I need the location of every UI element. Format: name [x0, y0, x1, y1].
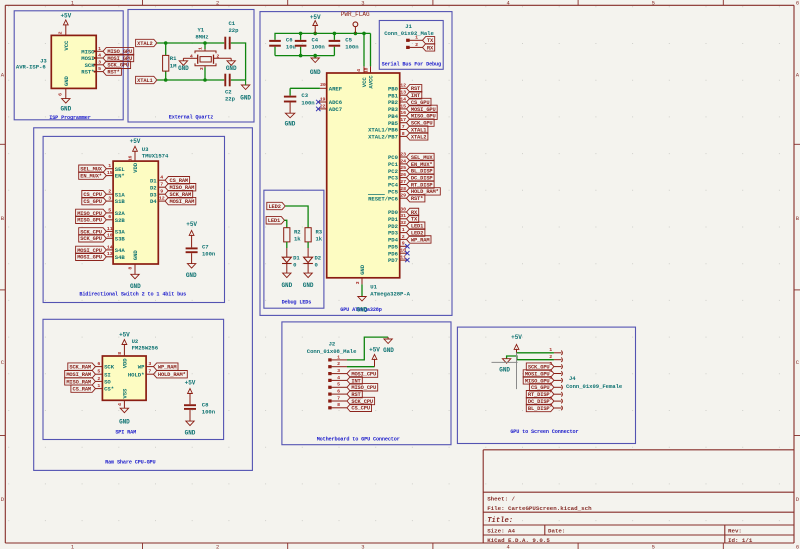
svg-text:S4B: S4B — [115, 254, 126, 261]
svg-text:2: 2 — [108, 189, 111, 195]
svg-text:+5V: +5V — [185, 379, 196, 386]
svg-text:11: 11 — [400, 254, 406, 260]
svg-text:1k: 1k — [316, 236, 323, 243]
svg-text:3: 3 — [98, 59, 101, 65]
svg-text:GND: GND — [186, 272, 197, 279]
svg-text:10: 10 — [400, 248, 406, 254]
svg-text:7: 7 — [402, 124, 405, 130]
svg-text:U1: U1 — [370, 284, 377, 291]
svg-text:2: 2 — [337, 361, 340, 367]
svg-text:RX: RX — [427, 45, 434, 51]
svg-text:+5V: +5V — [369, 347, 380, 354]
svg-text:R1: R1 — [170, 55, 177, 62]
svg-text:+5V: +5V — [60, 12, 71, 19]
svg-text:J1: J1 — [405, 23, 412, 30]
svg-text:GND: GND — [226, 65, 237, 72]
svg-text:S3B: S3B — [115, 235, 126, 242]
svg-text:32: 32 — [400, 220, 406, 226]
svg-text:12: 12 — [159, 196, 165, 202]
svg-text:1: 1 — [198, 47, 204, 50]
svg-text:GND: GND — [178, 65, 189, 72]
svg-text:C8: C8 — [202, 402, 209, 409]
svg-text:XTAL2/PB7: XTAL2/PB7 — [368, 134, 398, 141]
svg-text:GND: GND — [310, 69, 321, 76]
svg-text:Ram Share CPU-GPU: Ram Share CPU-GPU — [105, 460, 155, 466]
svg-text:RST*: RST* — [411, 196, 423, 202]
svg-text:GPU to Screen Connector: GPU to Screen Connector — [510, 429, 578, 435]
svg-text:1: 1 — [98, 46, 101, 52]
svg-text:TMUX1574: TMUX1574 — [142, 152, 169, 159]
svg-text:GND: GND — [383, 347, 394, 354]
svg-text:S2B: S2B — [115, 217, 126, 224]
svg-text:GND: GND — [303, 282, 314, 289]
svg-text:+5V: +5V — [310, 14, 321, 21]
svg-text:5: 5 — [337, 382, 340, 388]
svg-text:6: 6 — [337, 389, 340, 395]
svg-text:5: 5 — [652, 0, 655, 7]
svg-text:9: 9 — [160, 189, 163, 195]
svg-text:CS_GPU: CS_GPU — [83, 199, 102, 205]
svg-text:16: 16 — [400, 110, 406, 116]
svg-text:ATmega328P-A: ATmega328P-A — [370, 291, 410, 298]
svg-text:7: 7 — [337, 395, 340, 401]
svg-text:Motherboard to GPU Connector: Motherboard to GPU Connector — [317, 436, 400, 442]
svg-text:6: 6 — [108, 214, 111, 220]
svg-text:GND: GND — [499, 366, 510, 373]
svg-text:LED1: LED1 — [268, 218, 280, 224]
svg-text:BL_DISP: BL_DISP — [528, 406, 550, 412]
svg-text:Rev:: Rev: — [728, 528, 742, 535]
svg-text:22: 22 — [320, 103, 326, 109]
svg-text:AVR-ISP-6: AVR-ISP-6 — [16, 64, 46, 71]
svg-text:8: 8 — [117, 352, 123, 355]
svg-text:VCC: VCC — [63, 40, 70, 51]
svg-text:SCK: SCK — [104, 364, 115, 371]
svg-text:C2: C2 — [225, 89, 232, 96]
svg-text:7: 7 — [148, 369, 151, 375]
svg-text:Id: 1/1: Id: 1/1 — [728, 537, 753, 544]
svg-text:WP_RAM: WP_RAM — [411, 237, 430, 243]
svg-text:Y1: Y1 — [197, 27, 204, 34]
svg-text:23: 23 — [400, 151, 406, 157]
svg-text:GND: GND — [359, 264, 366, 275]
svg-text:13: 13 — [107, 251, 113, 257]
svg-text:28: 28 — [400, 186, 406, 192]
svg-text:GND: GND — [240, 95, 251, 102]
svg-text:D4: D4 — [150, 198, 157, 205]
svg-text:15: 15 — [400, 103, 406, 109]
svg-text:5: 5 — [652, 543, 655, 549]
svg-text:+5V: +5V — [186, 221, 197, 228]
svg-text:+5V: +5V — [511, 334, 522, 341]
svg-text:GND: GND — [285, 121, 296, 128]
svg-text:2: 2 — [97, 376, 100, 382]
svg-text:MOSI_GPU: MOSI_GPU — [77, 255, 102, 261]
svg-text:C7: C7 — [202, 243, 209, 250]
svg-text:GND: GND — [119, 419, 130, 426]
svg-text:1: 1 — [97, 383, 100, 389]
svg-text:GND: GND — [60, 106, 71, 113]
svg-text:VSS: VSS — [122, 388, 129, 399]
svg-text:D2: D2 — [315, 254, 322, 261]
svg-text:4: 4 — [337, 375, 340, 381]
svg-text:16: 16 — [127, 156, 133, 162]
svg-text:25: 25 — [400, 165, 406, 171]
svg-text:1: 1 — [108, 163, 111, 169]
svg-text:100n: 100n — [202, 409, 216, 416]
svg-text:Conn_01x02_Male: Conn_01x02_Male — [384, 30, 434, 37]
svg-text:R3: R3 — [316, 228, 323, 235]
svg-text:File: CarteGPUScreen.kicad_sch: File: CarteGPUScreen.kicad_sch — [487, 505, 592, 512]
svg-text:6: 6 — [58, 93, 64, 96]
svg-text:1: 1 — [337, 354, 340, 360]
svg-text:1: 1 — [415, 35, 418, 41]
svg-text:CS_RAM: CS_RAM — [72, 387, 91, 393]
svg-text:GND: GND — [357, 307, 368, 314]
svg-text:100n: 100n — [202, 251, 216, 258]
svg-text:WP: WP — [138, 364, 145, 371]
svg-text:HOLD_RAM*: HOLD_RAM* — [158, 372, 186, 378]
svg-text:LED2: LED2 — [268, 204, 280, 210]
svg-text:3: 3 — [108, 196, 111, 202]
svg-text:2: 2 — [415, 42, 418, 48]
svg-text:2: 2 — [216, 543, 219, 549]
svg-text:5: 5 — [97, 369, 100, 375]
svg-text:C4: C4 — [312, 37, 319, 44]
svg-text:5: 5 — [98, 66, 101, 72]
svg-text:4: 4 — [160, 175, 163, 181]
svg-text:1k: 1k — [294, 236, 301, 243]
svg-text:SCK_GPU: SCK_GPU — [80, 236, 102, 242]
svg-text:17: 17 — [400, 117, 406, 123]
svg-text:RST*: RST* — [81, 69, 94, 76]
svg-text:Date:: Date: — [548, 528, 565, 535]
svg-text:Bidirectional Switch 2 to 1 4b: Bidirectional Switch 2 to 1 4bit bus — [79, 291, 186, 297]
svg-text:VDD: VDD — [132, 162, 139, 173]
svg-text:2: 2 — [402, 234, 405, 240]
svg-text:R2: R2 — [294, 228, 301, 235]
svg-text:SO: SO — [104, 379, 111, 386]
svg-text:1M: 1M — [170, 63, 177, 70]
svg-text:Debug LEDs: Debug LEDs — [282, 299, 312, 305]
svg-text:+5V: +5V — [130, 138, 141, 145]
svg-text:2: 2 — [216, 0, 219, 7]
svg-text:C3: C3 — [301, 92, 308, 99]
svg-text:C1: C1 — [229, 20, 236, 27]
svg-text:29: 29 — [400, 193, 406, 199]
svg-text:Conn_01x09_Female: Conn_01x09_Female — [566, 383, 623, 390]
svg-text:HOLD*: HOLD* — [128, 371, 145, 378]
svg-text:AREF: AREF — [329, 85, 343, 92]
svg-text:8: 8 — [127, 267, 133, 270]
svg-text:4: 4 — [190, 54, 193, 60]
svg-text:KiCad E.D.A. 9.0.5: KiCad E.D.A. 9.0.5 — [487, 537, 550, 544]
svg-text:14: 14 — [107, 244, 113, 250]
svg-text:6: 6 — [796, 543, 799, 549]
svg-text:PWR_FLAG: PWR_FLAG — [341, 11, 370, 18]
svg-text:MOSI_RAM: MOSI_RAM — [66, 372, 91, 378]
svg-text:8: 8 — [402, 131, 405, 137]
svg-text:WP_RAM: WP_RAM — [158, 365, 177, 371]
svg-text:4: 4 — [117, 403, 123, 406]
svg-text:12: 12 — [400, 83, 406, 89]
svg-text:GND: GND — [281, 282, 292, 289]
svg-text:GND: GND — [130, 283, 141, 290]
svg-text:XTAL2: XTAL2 — [411, 134, 426, 140]
svg-text:22p: 22p — [229, 27, 240, 34]
svg-text:8: 8 — [337, 402, 340, 408]
svg-text:22p: 22p — [225, 96, 236, 103]
svg-text:SI: SI — [104, 371, 111, 378]
svg-text:GND: GND — [185, 430, 196, 437]
svg-text:6: 6 — [796, 0, 799, 7]
svg-text:Title:: Title: — [487, 517, 513, 525]
svg-text:3: 3 — [148, 361, 151, 367]
svg-text:14: 14 — [400, 96, 406, 102]
svg-text:8MHz: 8MHz — [195, 34, 208, 41]
svg-text:9: 9 — [402, 241, 405, 247]
svg-text:XTAL2: XTAL2 — [137, 41, 152, 47]
svg-text:3: 3 — [361, 543, 364, 549]
svg-text:Conn_01x08_Male: Conn_01x08_Male — [307, 348, 357, 355]
svg-text:24: 24 — [400, 158, 406, 164]
svg-text:5: 5 — [108, 207, 111, 213]
svg-text:External Quartz: External Quartz — [169, 115, 213, 121]
svg-text:19: 19 — [320, 96, 326, 102]
svg-text:100n: 100n — [312, 44, 326, 51]
svg-text:ISP Programmer: ISP Programmer — [49, 115, 91, 121]
svg-text:2: 2 — [58, 31, 64, 34]
svg-text:2: 2 — [216, 54, 219, 60]
svg-text:CS*: CS* — [104, 386, 114, 393]
svg-text:FM25W256: FM25W256 — [132, 345, 159, 352]
svg-text:ADC7: ADC7 — [329, 106, 342, 113]
svg-text:J2: J2 — [329, 341, 336, 348]
svg-text:4: 4 — [356, 69, 362, 72]
svg-text:Serial Bus For Debug: Serial Bus For Debug — [382, 61, 441, 67]
svg-text:XTAL1: XTAL1 — [137, 78, 152, 84]
svg-text:3: 3 — [355, 281, 361, 284]
svg-text:EN*: EN* — [115, 173, 125, 180]
svg-text:D1: D1 — [293, 254, 300, 261]
svg-text:3: 3 — [337, 368, 340, 374]
svg-text:EN_MUX*: EN_MUX* — [80, 174, 102, 180]
svg-text:31: 31 — [400, 213, 406, 219]
svg-text:AVCC: AVCC — [368, 75, 375, 89]
svg-text:SCK_RAM: SCK_RAM — [69, 365, 91, 371]
svg-text:15: 15 — [107, 170, 113, 176]
svg-text:30: 30 — [400, 206, 406, 212]
svg-text:RST*: RST* — [107, 70, 119, 76]
svg-text:3: 3 — [361, 0, 364, 7]
svg-text:4: 4 — [98, 53, 101, 59]
svg-text:MISO_RAM: MISO_RAM — [66, 379, 91, 385]
svg-text:6: 6 — [97, 361, 100, 367]
svg-text:26: 26 — [400, 172, 406, 178]
svg-text:100n: 100n — [345, 44, 359, 51]
svg-text:VDD: VDD — [122, 358, 129, 369]
svg-text:C6: C6 — [286, 37, 293, 44]
svg-text:1: 1 — [402, 227, 405, 233]
svg-text:+5V: +5V — [119, 332, 130, 339]
svg-text:MOSI_RAM: MOSI_RAM — [170, 199, 195, 205]
svg-text:100n: 100n — [301, 99, 315, 106]
svg-text:RESET/PC6: RESET/PC6 — [368, 195, 398, 202]
svg-text:GND: GND — [63, 75, 70, 86]
svg-text:SPI RAM: SPI RAM — [115, 430, 136, 436]
svg-text:GND: GND — [132, 250, 139, 261]
svg-text:10u: 10u — [286, 44, 296, 51]
svg-text:J4: J4 — [569, 375, 576, 382]
svg-text:20: 20 — [320, 82, 326, 88]
svg-text:27: 27 — [400, 179, 406, 185]
svg-text:10: 10 — [107, 233, 113, 239]
svg-text:S1B: S1B — [115, 198, 126, 205]
svg-text:D1: D1 — [150, 177, 157, 184]
svg-text:7: 7 — [160, 182, 163, 188]
svg-text:CS_CPU: CS_CPU — [351, 406, 370, 412]
svg-text:13: 13 — [400, 90, 406, 96]
svg-text:MISO_GPU: MISO_GPU — [77, 218, 102, 224]
svg-text:Size: A4: Size: A4 — [487, 528, 515, 535]
svg-text:C5: C5 — [345, 37, 352, 44]
svg-text:Sheet: /: Sheet: / — [487, 496, 515, 503]
svg-text:11: 11 — [107, 226, 113, 232]
svg-text:D2: D2 — [150, 184, 157, 191]
svg-text:PD7: PD7 — [388, 257, 398, 264]
svg-text:3: 3 — [199, 67, 205, 70]
